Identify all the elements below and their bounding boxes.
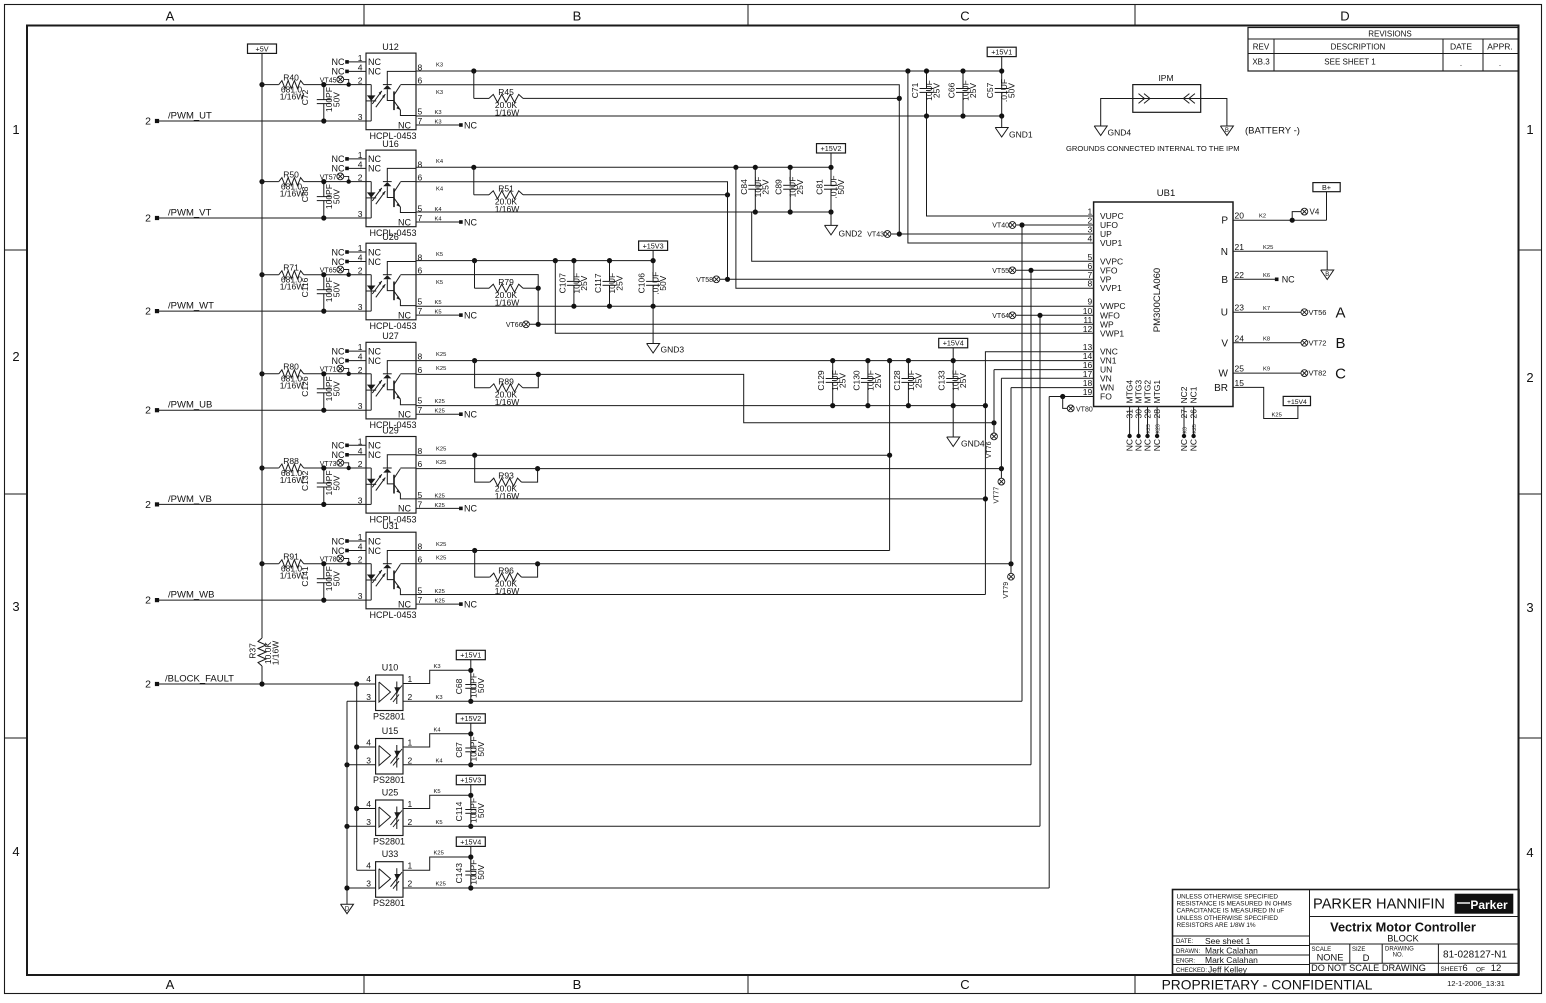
wire WFO fault vertical K5 (1039, 315, 1041, 826)
svg-text:C133: C133 (937, 370, 947, 391)
svg-text:25V: 25V (968, 83, 978, 98)
svg-text:NC: NC (464, 120, 477, 130)
svg-text:NC: NC (332, 164, 345, 174)
svg-text:NC1: NC1 (1189, 386, 1199, 403)
svg-text:SIZE: SIZE (1352, 947, 1365, 953)
junction C88 top (321, 179, 326, 184)
svg-text:NC: NC (398, 217, 411, 227)
svg-text:K25: K25 (1192, 424, 1198, 433)
zone divider left 3|4 (5, 737, 28, 739)
junction top rail4 x867.9 (865, 358, 870, 363)
zone divider right 3|4 (1519, 737, 1542, 739)
node /PWM_WT source (155, 309, 159, 313)
svg-text:NC: NC (1179, 439, 1189, 451)
opto-coupler U12 HCPL-0453 (332, 42, 423, 141)
power flag +15V1 (987, 47, 1016, 56)
svg-text:U27: U27 (382, 331, 399, 341)
svg-text:VT57: VT57 (320, 174, 337, 181)
capacitor C68 100PF 50V (454, 670, 486, 701)
svg-text:25V: 25V (873, 373, 883, 388)
svg-text:B: B (573, 9, 582, 24)
junction R89 tap (472, 358, 477, 363)
junction top rail2 x790.2 (788, 165, 793, 170)
zone divider left 2|3 (5, 493, 28, 495)
junction C87 bottom (468, 762, 473, 767)
wire U15 pin1 to +15V2 (403, 734, 471, 747)
capacitor C81 .01UF 50V (815, 167, 847, 212)
svg-text:8: 8 (1087, 279, 1092, 289)
junction top rail2 x735.9 (733, 165, 738, 170)
svg-text:1: 1 (358, 532, 363, 542)
junction bottom rail4 x867.9 (865, 403, 870, 408)
svg-text:2: 2 (408, 755, 413, 765)
revisions table (1248, 28, 1519, 72)
svg-text:NC: NC (398, 310, 411, 320)
svg-text:K3: K3 (436, 90, 443, 96)
svg-text:3: 3 (358, 401, 363, 411)
svg-text:K5: K5 (436, 280, 443, 286)
wire VNC vertical (985, 352, 1093, 595)
wire U26 pin8 K5 line / +15V3 rail (416, 260, 653, 262)
svg-text:/PWM_UB: /PWM_UB (168, 400, 212, 411)
svg-text:+15V1: +15V1 (991, 48, 1012, 57)
svg-text:1: 1 (408, 799, 413, 809)
svg-text:3: 3 (358, 112, 363, 122)
svg-text:VT55: VT55 (992, 268, 1009, 275)
svg-text:NC: NC (332, 154, 345, 164)
junction top rail4 x953.2 (951, 358, 956, 363)
svg-text:K25: K25 (1272, 412, 1282, 418)
wire R37 to /BLOCK_FAULT (261, 666, 263, 684)
junction C72 top (321, 82, 326, 87)
svg-text:4: 4 (358, 62, 363, 72)
svg-text:PS2801: PS2801 (373, 775, 405, 785)
junction top rail3 x573.9 (571, 258, 576, 263)
junction bottom rail2 x755.3 (753, 209, 758, 214)
svg-text:R80: R80 (283, 362, 299, 372)
svg-text:K3: K3 (434, 664, 441, 670)
resistor R96 20.0K 1/16W (475, 551, 538, 597)
svg-text:1: 1 (408, 861, 413, 871)
junction bottom rail2 x831 (828, 209, 833, 214)
svg-text:C57: C57 (985, 82, 995, 98)
svg-text:3: 3 (358, 495, 363, 505)
svg-text:B: B (1325, 272, 1329, 278)
svg-text:25V: 25V (958, 373, 968, 388)
svg-text:8: 8 (418, 446, 423, 456)
test point VT77 (993, 469, 1004, 504)
svg-text:50V: 50V (836, 179, 846, 194)
svg-text:NC: NC (398, 599, 411, 609)
svg-text:1: 1 (1526, 122, 1533, 137)
wire U12 pin5 K3 line / GND1 rail (416, 115, 1002, 117)
capacitor C128 10UF 25V (892, 361, 924, 406)
svg-text:NC: NC (332, 441, 345, 451)
capacitor C71 10UF 25V (910, 71, 942, 116)
svg-text:25: 25 (1235, 364, 1245, 374)
IPM module UB1 outline (1094, 188, 1233, 407)
svg-text:C: C (960, 977, 969, 992)
svg-text:4: 4 (366, 861, 371, 871)
svg-text:2: 2 (145, 595, 151, 607)
pin 30 MTG3 UB1 bottom (1134, 380, 1144, 452)
svg-text:Jeff Kelley: Jeff Kelley (1208, 964, 1248, 974)
wire U25 pin3 (347, 825, 376, 827)
power flag +15V2 (817, 144, 846, 153)
wire U33 pin4 (357, 869, 376, 871)
wire R45 jog (473, 71, 475, 98)
junction R51 / VP vertical (725, 192, 730, 197)
svg-text:B: B (573, 977, 582, 992)
junction R93 / U29 pin6 (535, 466, 540, 471)
pin 26 NC1 UB1 bottom (1189, 386, 1199, 451)
wire pin7 NC stub U26 (416, 314, 461, 316)
svg-text:BLOCK: BLOCK (1387, 934, 1419, 944)
wire U pin23 line (1233, 311, 1301, 313)
svg-text:2: 2 (408, 817, 413, 827)
svg-text:8: 8 (418, 159, 423, 169)
junction bottom rail4 x953.2 (951, 403, 956, 408)
svg-text:B: B (1335, 335, 1345, 352)
svg-text:P: P (1221, 216, 1228, 227)
svg-text:Mark Calahan: Mark Calahan (1205, 955, 1258, 965)
svg-text:+15V2: +15V2 (821, 144, 842, 153)
junction WN line / VT79 (1008, 561, 1013, 566)
pin 28 MTG1 UB1 bottom (1152, 380, 1162, 452)
wire U29 pin5 line (416, 498, 985, 500)
junction VNC / rail4 (983, 403, 988, 408)
svg-text:+15V1: +15V1 (460, 651, 481, 660)
svg-text:2: 2 (1526, 370, 1533, 385)
svg-text:OF: OF (1476, 967, 1485, 974)
junction +15V3 / C114 (468, 793, 473, 798)
svg-text:IPM: IPM (1158, 73, 1173, 83)
svg-text:VT79: VT79 (1003, 582, 1010, 599)
junction R93 tap (472, 453, 477, 458)
svg-text:VUP1: VUP1 (1100, 238, 1122, 248)
IPM connector block (1133, 73, 1201, 112)
svg-text:K5: K5 (436, 252, 443, 258)
svg-text:U29: U29 (382, 425, 399, 435)
wire /PWM_WT input line (158, 310, 366, 312)
zone divider top B|C (747, 5, 749, 26)
svg-text:4: 4 (358, 352, 363, 362)
capacitor C107 10UF 25V (557, 261, 589, 307)
junction top rail4 x908.4 (906, 358, 911, 363)
svg-text:50V: 50V (332, 475, 342, 490)
svg-text:PS2801: PS2801 (373, 712, 405, 722)
svg-text:C128: C128 (892, 370, 902, 391)
pin 31 MTG4 UB1 bottom (1125, 380, 1135, 452)
svg-text:U25: U25 (382, 788, 399, 798)
svg-text:25V: 25V (795, 179, 805, 194)
test point VT76 (986, 423, 997, 458)
junction +15V3 tap (651, 258, 656, 263)
svg-text:R37: R37 (248, 643, 258, 659)
svg-text:A: A (166, 9, 175, 24)
svg-text:K25: K25 (436, 366, 446, 372)
ground B (battery minus) N pin (1321, 270, 1334, 280)
svg-text:K25: K25 (435, 599, 445, 605)
node /BLOCK_FAULT source (155, 682, 159, 686)
svg-text:K25: K25 (436, 882, 446, 888)
svg-text:NC: NC (368, 450, 381, 460)
svg-text:C141: C141 (300, 566, 310, 587)
junction anode rail U15 (354, 744, 359, 749)
svg-text:1: 1 (408, 674, 413, 684)
junction C141 top (321, 561, 326, 566)
svg-text:NC: NC (1282, 275, 1295, 285)
junction cathode rail U15 (344, 762, 349, 767)
wire B+ stub (1326, 192, 1328, 221)
svg-text:V4: V4 (1310, 208, 1320, 217)
power flag +15V1 (456, 650, 485, 659)
svg-text:VT56: VT56 (1309, 308, 1327, 317)
junction C143 bottom (468, 885, 473, 890)
svg-text:SHEET: SHEET (1441, 966, 1463, 973)
wire PS2801 anode rail vertical (356, 684, 358, 870)
svg-text:12: 12 (1083, 324, 1093, 334)
svg-text:1/16W: 1/16W (495, 491, 520, 501)
test point VT43 / UP line (867, 231, 1093, 239)
junction bottom rail1 x963 (960, 113, 965, 118)
svg-text:K3: K3 (436, 695, 443, 701)
capacitor C88 100PF 50V (300, 182, 342, 218)
svg-text:C68: C68 (454, 678, 464, 694)
svg-text:K5: K5 (434, 789, 441, 795)
zone divider bottom C|D (1134, 975, 1136, 994)
junction +5V rail / R88 (259, 465, 264, 470)
svg-text:K3: K3 (435, 110, 442, 116)
wire +15V2 stub (830, 153, 832, 167)
resistor R89 20.0K 1/16W (475, 361, 539, 407)
svg-text:3: 3 (358, 209, 363, 219)
svg-text:NC: NC (332, 257, 345, 267)
junction top rail1 x963 (960, 68, 965, 73)
power flag +15V3 (639, 241, 668, 250)
svg-text:D: D (345, 906, 350, 912)
test point VT80 (1063, 397, 1093, 414)
ground GND1 (1001, 116, 1003, 128)
svg-text:+15V2: +15V2 (460, 714, 481, 723)
svg-text:2: 2 (358, 266, 363, 276)
svg-text:REVISIONS: REVISIONS (1368, 30, 1412, 39)
svg-text:23: 23 (1235, 303, 1245, 313)
wire /PWM_VB input line (158, 503, 366, 505)
zone divider bottom A|B (363, 975, 365, 994)
wire VUPC vertical (927, 116, 1094, 216)
opto-coupler U29 HCPL-0453 (332, 425, 423, 524)
capacitor C106 .01UF 50V (637, 261, 669, 307)
svg-text:N: N (1221, 247, 1228, 258)
svg-text:K3: K3 (1183, 427, 1189, 433)
svg-text:GND4: GND4 (961, 439, 985, 449)
svg-text:50V: 50V (476, 741, 486, 756)
svg-text:K23: K23 (1156, 424, 1162, 433)
svg-text:K4: K4 (435, 217, 443, 223)
capacitor C130 10UF 25V (851, 361, 883, 406)
svg-text:NC: NC (368, 154, 381, 164)
svg-text:U31: U31 (382, 521, 399, 531)
svg-text:NO.: NO. (1393, 953, 1404, 959)
wire VN vertical (1000, 378, 1002, 468)
svg-text:50V: 50V (1007, 83, 1017, 98)
svg-text:VT71: VT71 (320, 367, 337, 374)
svg-text:PM300CLA060: PM300CLA060 (1152, 268, 1163, 332)
svg-text:+15V3: +15V3 (460, 776, 481, 785)
junction +5V rail / R91 (259, 561, 264, 566)
svg-text:UB1: UB1 (1157, 188, 1175, 199)
svg-text:VT58: VT58 (696, 277, 713, 284)
opto-coupler U16 HCPL-0453 (332, 139, 423, 238)
svg-text:NONE: NONE (1317, 953, 1344, 963)
svg-text:U10: U10 (382, 663, 399, 673)
svg-text:C116: C116 (300, 277, 310, 297)
svg-text:UNLESS OTHERWISE SPECIFIED: UNLESS OTHERWISE SPECIFIED (1177, 894, 1279, 901)
svg-text:U12: U12 (382, 42, 399, 52)
svg-text:NC: NC (398, 410, 411, 420)
wire BR pin15 line to +15V4 (1233, 387, 1298, 418)
svg-text:C84: C84 (739, 179, 749, 195)
svg-text:VT66: VT66 (506, 322, 523, 329)
wire U27 pin5 K25 line / VNC rail (416, 405, 985, 407)
wire UP vertical (898, 98, 900, 234)
svg-text:2: 2 (358, 459, 363, 469)
wire V pin24 line (1233, 342, 1301, 344)
wire U26 pin6 line (416, 275, 538, 289)
wire U10 pin3 (347, 700, 376, 702)
svg-text:REV: REV (1253, 43, 1270, 52)
svg-text:C: C (1335, 365, 1346, 382)
wire /BLOCK_FAULT line (158, 683, 376, 685)
capacitor C57 .01UF 50V (985, 71, 1017, 116)
svg-text:4: 4 (366, 738, 371, 748)
svg-text:K6: K6 (1263, 273, 1270, 279)
svg-text:.: . (1499, 59, 1501, 68)
svg-text:/PWM_VT: /PWM_VT (168, 208, 211, 219)
svg-text:2: 2 (408, 879, 413, 889)
svg-text:C132: C132 (300, 470, 310, 491)
resistor R51 20.0K 1/16W (474, 183, 728, 214)
junction C116 top (321, 272, 326, 277)
junction C68 bottom (468, 699, 473, 704)
capacitor C84 10UF 25V (739, 167, 771, 212)
junction bottom rail2 x790.2 (788, 209, 793, 214)
test point VT55 / VFO line (992, 267, 1093, 275)
test point VT66 / WP line (506, 321, 1094, 329)
wire B pin22 NC stub (1233, 278, 1277, 280)
node /PWM_WB source (155, 598, 159, 602)
svg-text:6: 6 (418, 76, 423, 86)
capacitor C126 100PF 50V (300, 374, 342, 410)
test point VT73 (320, 459, 351, 470)
svg-text:Vectrix Motor Controller: Vectrix Motor Controller (1330, 920, 1476, 935)
svg-text:5: 5 (418, 396, 423, 406)
svg-text:B: B (1221, 275, 1228, 286)
svg-text:2: 2 (145, 679, 151, 691)
svg-text:5: 5 (418, 297, 423, 307)
svg-text:50V: 50V (476, 678, 486, 693)
svg-text:DO NOT SCALE DRAWING: DO NOT SCALE DRAWING (1311, 963, 1426, 973)
opto-coupler U26 HCPL-0453 (332, 232, 423, 331)
svg-text:1: 1 (358, 342, 363, 352)
junction R96 / U31 pin6 (535, 561, 540, 566)
ground GND4 (IPM) (1094, 126, 1107, 136)
svg-text:22: 22 (1235, 270, 1245, 280)
svg-text:C130: C130 (851, 370, 861, 391)
opto-coupler U31 HCPL-0453 (332, 521, 423, 620)
svg-text:NC: NC (368, 257, 381, 267)
svg-text:VT43: VT43 (867, 232, 884, 239)
svg-text:R51: R51 (498, 183, 514, 193)
svg-text:20: 20 (1235, 211, 1245, 221)
svg-text:R96: R96 (498, 566, 514, 576)
svg-text:R45: R45 (498, 87, 514, 97)
node /PWM_UT source (155, 119, 159, 123)
svg-text:PS2801: PS2801 (373, 837, 405, 847)
svg-text:2: 2 (408, 692, 413, 702)
svg-text:CAPACITANCE IS MEASURED IN uF: CAPACITANCE IS MEASURED IN uF (1177, 908, 1285, 915)
junction UN line / VT76 (991, 420, 996, 425)
resistor R71 681.0 1/16W (262, 263, 366, 292)
svg-text:4: 4 (358, 253, 363, 263)
svg-text:K4: K4 (436, 159, 444, 165)
svg-text:DRAWING: DRAWING (1385, 946, 1414, 952)
wire +15V3 stub (470, 785, 472, 796)
svg-text:NC: NC (332, 450, 345, 460)
test point VT64 / WFO line (992, 312, 1093, 320)
svg-text:3: 3 (366, 692, 371, 702)
svg-text:C117: C117 (593, 273, 603, 293)
wire pin7 NC stub U27 (416, 413, 461, 415)
svg-text:NC: NC (1152, 439, 1162, 451)
svg-text:2: 2 (358, 76, 363, 86)
wire U12 pin8 K3 line / +15V1 rail (416, 70, 1002, 72)
svg-text:XB.3: XB.3 (1252, 58, 1270, 67)
svg-text:C87: C87 (454, 742, 464, 758)
ground D (PS2801 cathodes) (341, 904, 354, 914)
svg-text:NC: NC (368, 441, 381, 451)
junction top rail1 x907.9 (905, 68, 910, 73)
wire U33 pin1 to +15V4 (403, 857, 471, 870)
svg-text:2: 2 (358, 365, 363, 375)
svg-text:K25: K25 (435, 503, 445, 509)
wire U31 pin6 / WN gate line (416, 563, 1011, 565)
svg-text:W: W (1219, 369, 1229, 380)
resistor R88 681.0 1/16W (262, 456, 366, 485)
pin 29 MTG2 UB1 bottom (1143, 380, 1153, 452)
svg-text:R79: R79 (498, 277, 514, 287)
svg-text:K3: K3 (436, 63, 443, 69)
wire FO fault vertical K25 (1048, 397, 1050, 889)
wire UN vertical (993, 370, 995, 423)
junction R51 tap (471, 165, 476, 170)
wire U10 pin2 K3 line (403, 700, 1022, 702)
svg-text:GND2: GND2 (839, 229, 863, 239)
svg-text:VT77: VT77 (993, 487, 1000, 504)
svg-text:6: 6 (418, 365, 423, 375)
svg-text:APPR.: APPR. (1487, 42, 1513, 52)
test point VT58 / VP line (696, 276, 1093, 284)
junction C141 bottom (321, 598, 326, 603)
svg-text:GND4: GND4 (1108, 128, 1132, 138)
svg-text:R88: R88 (283, 456, 299, 466)
test point VT82 (1301, 369, 1326, 378)
wire pin7 NC stub U31 (416, 603, 461, 605)
svg-text:50V: 50V (476, 803, 486, 818)
svg-text:1: 1 (358, 243, 363, 253)
svg-text:19: 19 (1083, 387, 1093, 397)
